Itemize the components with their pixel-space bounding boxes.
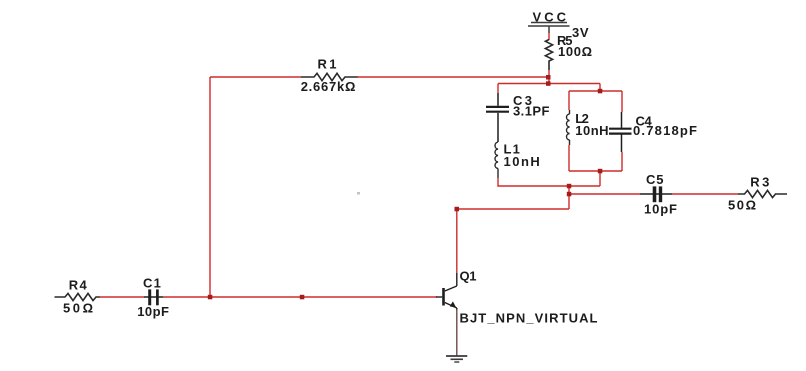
svg-text:3.1PF: 3.1PF: [513, 104, 550, 119]
svg-text:10pF: 10pF: [137, 304, 169, 319]
svg-text:3V: 3V: [572, 25, 589, 40]
svg-text:10nH: 10nH: [575, 123, 608, 138]
svg-text:10nH: 10nH: [504, 154, 540, 169]
svg-text:C1: C1: [143, 276, 161, 291]
svg-text:2.667kΩ: 2.667kΩ: [301, 79, 356, 94]
svg-text:C5: C5: [646, 172, 664, 187]
svg-text:50Ω: 50Ω: [63, 301, 93, 316]
svg-text:Q1: Q1: [460, 268, 477, 283]
svg-text:R4: R4: [69, 278, 88, 293]
svg-text:0.7818pF: 0.7818pF: [633, 123, 697, 138]
svg-text:BJT_NPN_VIRTUAL: BJT_NPN_VIRTUAL: [460, 311, 598, 326]
svg-text:100Ω: 100Ω: [558, 44, 592, 59]
svg-text:50Ω: 50Ω: [728, 198, 756, 213]
svg-text:VCC: VCC: [533, 9, 567, 24]
svg-text:10pF: 10pF: [644, 202, 677, 217]
